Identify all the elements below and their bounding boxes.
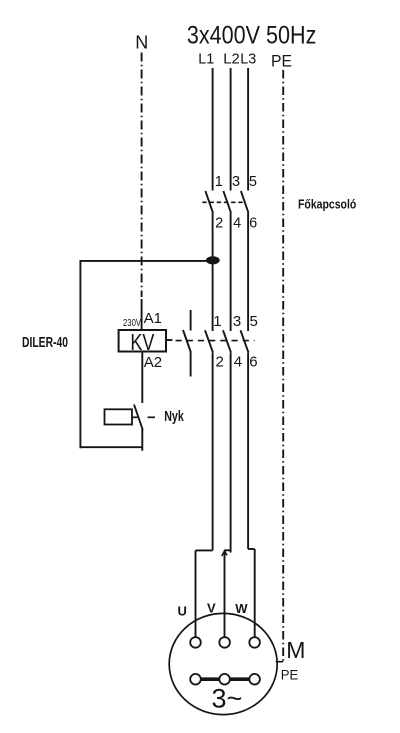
svg-text:3: 3 xyxy=(232,174,240,190)
svg-text:L3: L3 xyxy=(240,50,256,67)
motor M1 circle xyxy=(169,613,277,714)
wire L3 jog xyxy=(248,548,255,550)
main switch pole 3 lever xyxy=(241,191,249,213)
svg-text:1: 1 xyxy=(215,174,223,190)
motor bridge terminal right xyxy=(249,674,260,685)
wire L1 lower segment xyxy=(212,353,214,551)
arrow mark on V wire xyxy=(222,551,227,556)
svg-text:5: 5 xyxy=(249,174,257,190)
contactor pole 3 lever xyxy=(241,330,249,352)
main switch linkage dashed xyxy=(202,201,245,203)
control wire horizontal xyxy=(80,260,212,262)
svg-text:5: 5 xyxy=(250,313,258,330)
svg-text:A2: A2 xyxy=(144,354,162,371)
svg-text:M: M xyxy=(286,637,305,663)
svg-text:L2: L2 xyxy=(223,50,240,67)
svg-text:Főkapcsoló: Főkapcsoló xyxy=(298,197,356,212)
svg-text:PE: PE xyxy=(271,52,292,71)
svg-text:PE: PE xyxy=(281,667,299,683)
svg-text:V: V xyxy=(207,600,216,615)
wire to motor W xyxy=(254,549,256,638)
wire below Nyk xyxy=(141,429,143,451)
Nyk button actuator box xyxy=(105,409,133,424)
svg-text:4: 4 xyxy=(233,215,241,231)
wire to motor U xyxy=(195,550,197,638)
svg-text:U: U xyxy=(178,604,187,619)
coil KV box xyxy=(119,330,166,352)
svg-text:230V: 230V xyxy=(123,318,141,329)
contactor aux contact lower xyxy=(190,353,192,377)
svg-text:3: 3 xyxy=(233,313,241,330)
contactor aux contact lever xyxy=(183,330,191,353)
contactor pole 2 lever xyxy=(223,330,231,352)
main switch pole 2 lever xyxy=(223,191,231,213)
PE to motor tick xyxy=(276,661,283,663)
contactor linkage dashed xyxy=(176,340,255,342)
svg-text:L1: L1 xyxy=(198,50,214,67)
PE line dash-dot xyxy=(282,70,284,662)
neutral line N dash-dot xyxy=(141,53,143,298)
Nyk actuator link xyxy=(132,416,137,418)
svg-text:W: W xyxy=(235,601,248,616)
wire coil A2 down xyxy=(141,352,143,404)
svg-text:6: 6 xyxy=(249,215,257,231)
wire N to coil A1 xyxy=(141,299,143,331)
motor terminal W xyxy=(249,637,260,648)
svg-text:Nyk: Nyk xyxy=(164,408,184,425)
svg-text:DILER-40: DILER-40 xyxy=(22,335,68,351)
wire L1 jog xyxy=(196,549,213,551)
svg-text:2: 2 xyxy=(215,215,223,231)
wire L3 top segment xyxy=(247,68,249,191)
Nyk linkage dash xyxy=(148,416,155,418)
svg-text:3x400V 50Hz: 3x400V 50Hz xyxy=(187,22,317,50)
wire L2 top segment xyxy=(230,68,232,191)
svg-text:2: 2 xyxy=(216,353,224,370)
wire to motor V xyxy=(224,550,226,638)
main switch pole 1 lever xyxy=(205,191,213,213)
control wire left vertical xyxy=(79,260,81,448)
junction node on L1 xyxy=(206,256,220,264)
star bridge bar xyxy=(196,677,255,681)
coil to contact stub xyxy=(166,339,172,341)
wire L2 middle segment xyxy=(230,213,232,331)
contactor aux contact upper xyxy=(190,310,192,331)
svg-text:KV: KV xyxy=(130,329,154,355)
svg-text:4: 4 xyxy=(234,353,242,370)
motor bridge terminal middle xyxy=(219,674,230,685)
svg-text:3~: 3~ xyxy=(212,683,243,713)
svg-text:1: 1 xyxy=(213,313,221,330)
svg-text:6: 6 xyxy=(249,353,257,370)
wire L3 middle segment xyxy=(247,213,249,331)
wire L1 top segment xyxy=(212,68,214,191)
contactor pole 1 lever xyxy=(205,330,213,352)
wire L3 lower segment xyxy=(247,353,249,549)
Nyk button lever xyxy=(134,405,143,431)
motor terminal V xyxy=(219,637,230,648)
svg-text:N: N xyxy=(135,32,148,52)
wire L2 jog xyxy=(225,549,231,551)
wire L1 middle segment xyxy=(212,213,214,331)
motor terminal U xyxy=(190,637,201,648)
control wire bottom horizontal xyxy=(80,446,142,448)
motor bridge terminal left xyxy=(190,674,201,685)
wire L2 lower segment xyxy=(230,353,232,553)
svg-text:A1: A1 xyxy=(144,310,162,327)
